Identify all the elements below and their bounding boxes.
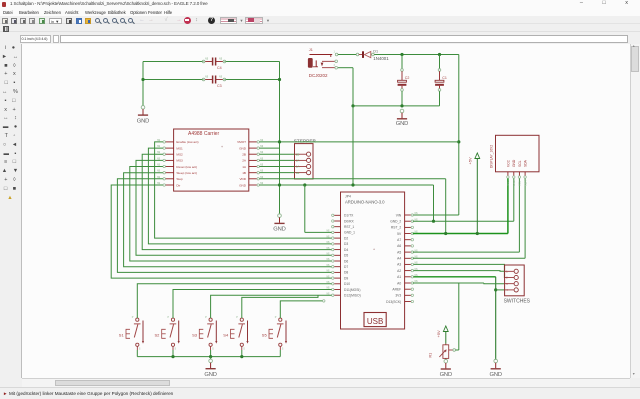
ground symbol GND below R1 <box>440 359 452 378</box>
label SWITCHES <box>504 299 531 305</box>
connector SV1 STEPPER <box>294 138 317 179</box>
svg-text:JP4: JP4 <box>345 195 351 199</box>
junction switch bus S3 <box>209 355 212 358</box>
junction VMOT at cap loop <box>278 140 281 143</box>
svg-text:D3: D3 <box>344 242 348 246</box>
junction GND_2 at x433 <box>432 220 435 223</box>
wire net 5V thick run <box>413 178 508 234</box>
wire A4988 1B to STEPPER 4 <box>259 172 294 174</box>
svg-text:RST_2: RST_2 <box>391 226 401 230</box>
svg-text:GND: GND <box>137 119 149 125</box>
wire net VIN top from J1 through D1 to corner x459 <box>338 54 459 56</box>
wire loop left vertical <box>142 62 144 106</box>
svg-text:2B: 2B <box>242 153 246 157</box>
wire S4 up and over to D12 join <box>242 295 318 318</box>
svg-text:A4: A4 <box>397 257 401 261</box>
wire A4988 2B to STEPPER 1 <box>259 153 294 155</box>
wire net VMOT run to x459 <box>259 141 458 143</box>
switch S1 pushbutton <box>119 316 144 351</box>
wire A4988 pin row 4 to Arduino D5 <box>136 160 332 255</box>
svg-text:GND: GND <box>239 183 247 187</box>
wire Arduino GND_1 to GND run <box>305 185 332 232</box>
wire GND run down to Arduino GND_2 <box>433 185 435 221</box>
IC JP4 Arduino Nano 3.0 <box>326 192 418 329</box>
svg-text:D8: D8 <box>344 271 348 275</box>
switch S3 pushbutton <box>192 316 217 351</box>
wire A4988 2A to STEPPER 2 <box>259 159 294 161</box>
svg-text:MS1: MS1 <box>176 146 183 150</box>
svg-text:DCJ0202: DCJ0202 <box>309 73 328 78</box>
svg-text:D0/RX: D0/RX <box>344 219 355 223</box>
connector U$2 DISPLAY 16x2 I2C <box>490 135 539 186</box>
wire Arduino A1 to GND drop <box>414 277 496 360</box>
svg-text:+5V: +5V <box>467 157 472 165</box>
power symbol +5V above R1 <box>436 326 448 344</box>
ground symbol GND below C2 <box>396 109 408 127</box>
junction 5V at VDD riser <box>444 232 447 235</box>
svg-text:Sleep (low act): Sleep (low act) <box>176 171 196 175</box>
wire S1 to Arduino D10 <box>137 284 331 318</box>
svg-text:A7: A7 <box>397 238 401 242</box>
svg-text:C4: C4 <box>217 66 222 70</box>
svg-text:3V3: 3V3 <box>395 294 401 298</box>
svg-text:VCC: VCC <box>506 180 510 186</box>
svg-text:C3: C3 <box>217 84 222 88</box>
junction loop right <box>278 78 281 81</box>
toolbar row 1 <box>0 16 640 24</box>
svg-text:SDA: SDA <box>523 180 527 186</box>
svg-text:SWITCHES: SWITCHES <box>504 299 531 305</box>
svg-text:A0: A0 <box>397 281 401 285</box>
svg-text:Step: Step <box>176 177 183 181</box>
svg-text:MS2: MS2 <box>176 153 183 157</box>
svg-text:1A: 1A <box>296 165 299 169</box>
svg-text:GND: GND <box>512 159 516 167</box>
wire net VIN vertical x459 down to Arduino VIN row <box>413 55 459 216</box>
svg-text:ARDUINO-NANO-3.0: ARDUINO-NANO-3.0 <box>345 200 385 205</box>
wire VMOT loop second <box>143 79 280 81</box>
junction C1 top tap <box>438 53 441 56</box>
svg-text:D1/TX: D1/TX <box>344 214 354 218</box>
svg-text:S4: S4 <box>223 332 229 337</box>
svg-text:RST_1: RST_1 <box>344 225 354 229</box>
svg-text:GND_1: GND_1 <box>344 231 355 235</box>
wire A4988 pin row 2 to Arduino D3 <box>148 148 331 244</box>
diode D1 1N4001 <box>356 49 389 61</box>
wire S5 up to row <box>280 300 325 318</box>
power symbol +5V near display <box>467 153 479 234</box>
svg-text:D13(SCK): D13(SCK) <box>386 300 401 304</box>
svg-text:SCL: SCL <box>518 180 522 186</box>
wire net VDD run y179 <box>259 179 445 234</box>
svg-text:D7: D7 <box>344 265 348 269</box>
svg-text:DISPLAY_16X2: DISPLAY_16X2 <box>490 145 494 168</box>
wire Arduino A0 to SWITCHES pin3 and R1 wiper <box>413 283 505 350</box>
wire loop right vertical down to GND symbol <box>279 62 281 215</box>
ground symbol GND below cap loop <box>137 106 149 125</box>
left tool palette <box>0 44 22 378</box>
svg-text:GND: GND <box>512 180 516 186</box>
command row <box>0 32 640 44</box>
svg-text:A4988 Carrier: A4988 Carrier <box>188 131 219 137</box>
svg-text:1B: 1B <box>242 171 246 175</box>
wire A4988 pin row 8 to Arduino D9 <box>111 185 331 278</box>
wire Arduino A2 to SWITCHES pin1 <box>414 270 506 273</box>
svg-text:GND: GND <box>239 146 247 150</box>
wire Arduino A3 to SWITCHES pin2 <box>414 264 506 277</box>
wire S3 to Arduino D12 <box>211 295 332 318</box>
ground symbol GND below switches <box>204 359 216 378</box>
ground symbol GND below A4988 <box>273 214 285 233</box>
svg-text:VIN: VIN <box>396 213 402 217</box>
junction C2 top tap <box>400 53 403 56</box>
title bar <box>0 0 640 8</box>
switch S5 pushbutton <box>262 316 287 351</box>
svg-text:VMOT: VMOT <box>237 140 246 144</box>
svg-text:SCL: SCL <box>518 160 522 167</box>
junction SWITCHES pin4 tap on GND drop <box>494 288 497 291</box>
svg-text:VCC: VCC <box>506 159 510 167</box>
svg-text:S1: S1 <box>119 332 125 337</box>
wire GND drop from J1 column to GND run <box>352 106 354 185</box>
svg-text:A3: A3 <box>397 263 401 267</box>
svg-text:1N4001: 1N4001 <box>373 56 389 61</box>
svg-text:A5: A5 <box>397 250 401 254</box>
wire Arduino A5 SCL to display <box>413 178 520 252</box>
wire A4988 pin row 7 to Arduino D8 <box>117 179 331 273</box>
svg-text:D12(MISO): D12(MISO) <box>344 294 361 298</box>
svg-text:2B: 2B <box>296 152 299 156</box>
junction loop left <box>141 78 144 81</box>
svg-text:2A: 2A <box>296 159 299 163</box>
svg-text:D1: D1 <box>373 49 378 53</box>
switch S4 pushbutton <box>223 316 248 351</box>
status bar <box>0 387 640 399</box>
svg-text:J1: J1 <box>309 48 313 52</box>
capacitor C1 electrolytic <box>435 55 447 106</box>
resistor R1 trimmer <box>429 344 459 360</box>
wire A4988 1A to STEPPER 3 <box>259 166 294 168</box>
svg-text:VDD: VDD <box>239 177 246 181</box>
toolbar row 2 <box>0 24 640 32</box>
svg-text:D5: D5 <box>344 254 348 258</box>
IC U1 A4988 stepper driver carrier <box>157 129 264 191</box>
svg-text:Enable (low act): Enable (low act) <box>176 140 198 144</box>
svg-text:S2: S2 <box>155 332 161 337</box>
wire net GND run y185 <box>259 184 433 186</box>
junction GND run at x353 <box>351 183 354 186</box>
svg-text:Dir: Dir <box>176 183 180 187</box>
capacitor C3 <box>202 76 225 88</box>
svg-text:D10: D10 <box>344 282 350 286</box>
wire Arduino GND_2 to display GND <box>413 178 514 221</box>
svg-text:C1: C1 <box>442 76 447 80</box>
svg-text:D2: D2 <box>344 236 348 240</box>
svg-text:GND_2: GND_2 <box>390 220 401 224</box>
svg-text:S5: S5 <box>262 332 268 337</box>
svg-text:GND: GND <box>273 227 285 233</box>
capacitor C4 <box>202 58 225 70</box>
wire A4988 pin row 6 to Arduino D7 <box>124 173 332 267</box>
svg-text:+5V: +5V <box>436 330 441 338</box>
svg-text:D11(MOSI): D11(MOSI) <box>344 288 360 292</box>
capacitor C2 electrolytic <box>398 55 410 106</box>
wire switches GND bus <box>137 350 280 357</box>
svg-text:C2: C2 <box>405 76 410 80</box>
wire J1 sleeve to GND bus <box>338 68 353 106</box>
junction switch bus S2 <box>171 355 174 358</box>
wire SWITCHES pin4 stub <box>496 289 505 291</box>
svg-text:GND: GND <box>396 121 408 127</box>
wire Arduino A4 SDA to display <box>413 178 525 258</box>
svg-text:1B: 1B <box>296 171 299 175</box>
svg-text:AREF: AREF <box>392 288 401 292</box>
svg-text:D4: D4 <box>344 248 348 252</box>
wire A4988 pin row 3 to Arduino D4 <box>142 154 331 249</box>
switch S2 pushbutton <box>155 316 180 351</box>
svg-text:USB: USB <box>367 317 383 326</box>
junction switch bus S4 <box>240 355 243 358</box>
junction GND run at x305 <box>303 183 306 186</box>
wire A4988 GND pin2 to GND column <box>259 148 279 185</box>
junction GND bus left <box>351 104 354 107</box>
svg-text:A2: A2 <box>397 269 401 273</box>
junction GND run at x279 <box>278 183 281 186</box>
svg-text:MS3: MS3 <box>176 159 183 163</box>
connector SV2 SWITCHES <box>505 265 525 296</box>
wire GND stub below bus <box>210 357 212 360</box>
junction 5V at +5V symbol <box>476 232 479 235</box>
svg-text:SDA: SDA <box>524 159 528 167</box>
svg-text:S3: S3 <box>192 332 198 337</box>
svg-text:A1: A1 <box>397 275 401 279</box>
wire A4988 pin row 1 to Arduino D2 <box>155 142 332 238</box>
junction GND bus at C2 <box>400 104 403 107</box>
junction VIN / VMOT tap <box>457 140 460 143</box>
connector J1 DC jack DCJ0202 <box>308 48 338 78</box>
svg-text:D9: D9 <box>344 276 348 280</box>
scrollbars <box>630 44 640 378</box>
ground symbol GND below SWITCHES <box>489 359 501 378</box>
menu bar <box>0 8 640 16</box>
wire VMOT loop top <box>143 61 280 63</box>
wire S2 to Arduino D11 <box>173 290 332 319</box>
svg-text:R1: R1 <box>429 353 433 358</box>
svg-text:A6: A6 <box>397 244 401 248</box>
svg-text:D6: D6 <box>344 259 348 263</box>
wire A4988 pin row 5 to Arduino D6 <box>130 167 332 262</box>
svg-text:Reset (low act): Reset (low act) <box>176 165 197 169</box>
wire GND bus under C1 C2 <box>353 105 440 107</box>
